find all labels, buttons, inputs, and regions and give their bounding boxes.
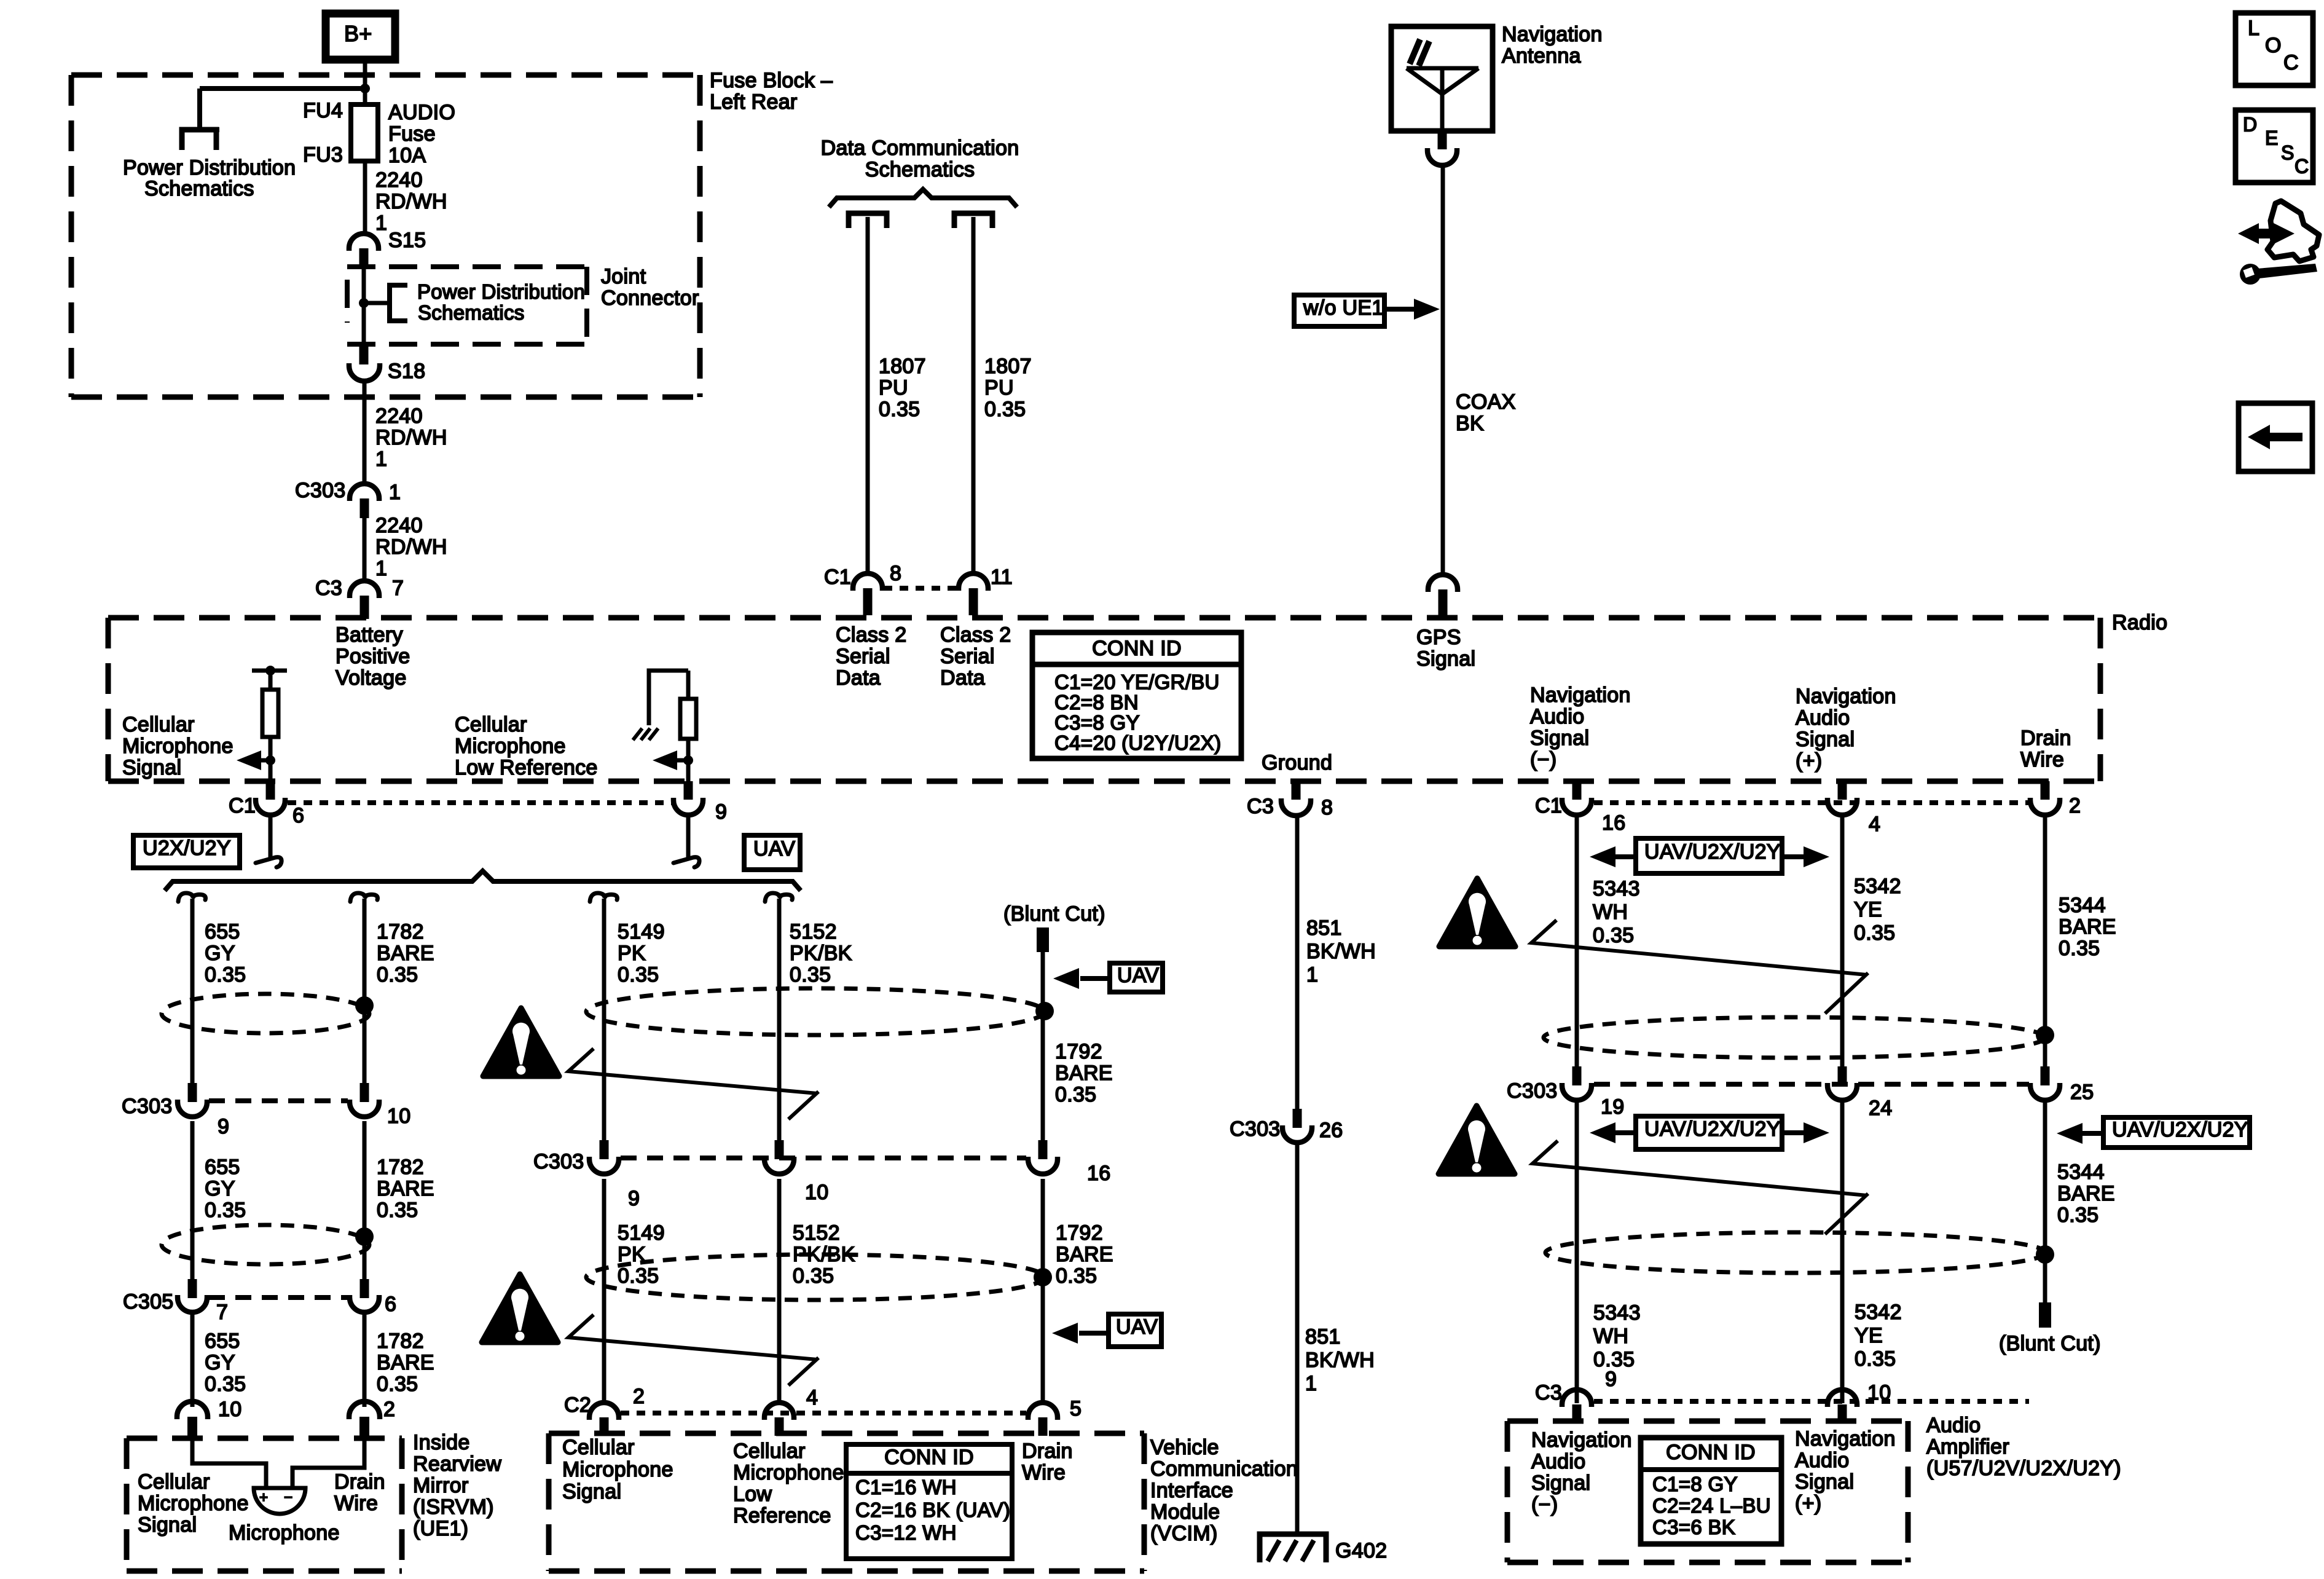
svg-text:851: 851 bbox=[1306, 916, 1342, 940]
twisted pair ellipse E3 bbox=[162, 1225, 369, 1264]
svg-text:C1: C1 bbox=[229, 794, 256, 817]
dashed line C303 row left bbox=[209, 1098, 348, 1103]
connector C303 pin 25 bbox=[2041, 1066, 2050, 1085]
svg-text:Battery: Battery bbox=[336, 623, 403, 647]
connector C2 pin 5 into VCIM bbox=[1028, 1403, 1058, 1420]
svg-text:Interface: Interface bbox=[1150, 1479, 1233, 1502]
svg-text:Signal: Signal bbox=[1530, 726, 1589, 750]
svg-text:G402: G402 bbox=[1335, 1539, 1387, 1562]
svg-text:C2: C2 bbox=[564, 1393, 591, 1417]
connector GPS into radio bbox=[1428, 575, 1458, 592]
svg-text:Audio: Audio bbox=[1796, 706, 1850, 730]
svg-text:RD/WH: RD/WH bbox=[375, 426, 447, 449]
wire 1782 BARE upper bbox=[363, 899, 367, 1083]
svg-text:1: 1 bbox=[375, 211, 387, 235]
wire low-ref bar to resistor bbox=[686, 671, 691, 699]
option box UAV/U2X/U2Y (mid) bbox=[1636, 1116, 1782, 1149]
svg-text:Drain: Drain bbox=[1022, 1439, 1073, 1463]
svg-text:CONN ID: CONN ID bbox=[884, 1446, 974, 1469]
svg-text:Cellular: Cellular bbox=[122, 713, 195, 736]
svg-text:Signal: Signal bbox=[562, 1480, 621, 1503]
svg-text:Joint: Joint bbox=[601, 265, 646, 288]
fork symbol circuit-continues (power distribution) bbox=[182, 130, 216, 150]
hook wire 5152 bbox=[765, 893, 793, 902]
wire 5342 YE lower bbox=[1840, 1102, 1845, 1403]
fine dotted line C1-6 to 9 bbox=[288, 800, 673, 805]
svg-text:0.35: 0.35 bbox=[1854, 921, 1895, 945]
svg-text:C1: C1 bbox=[1535, 794, 1562, 817]
connector pin 4 out of radio bbox=[1838, 781, 1847, 800]
svg-text:Cellular: Cellular bbox=[733, 1439, 806, 1463]
svg-text:Audio: Audio bbox=[1531, 1450, 1585, 1473]
svg-text:Navigation: Navigation bbox=[1502, 23, 1603, 46]
wire S18 to C303 bbox=[363, 380, 367, 485]
svg-text:RD/WH: RD/WH bbox=[375, 190, 447, 213]
svg-text:PK: PK bbox=[618, 942, 646, 965]
svg-text:BARE: BARE bbox=[377, 1177, 434, 1200]
connector C3 pin 7 into radio bbox=[350, 581, 379, 598]
svg-text:Power Distribution: Power Distribution bbox=[123, 156, 296, 179]
svg-text:UAV: UAV bbox=[1117, 964, 1159, 987]
lightning left lower bbox=[568, 1315, 819, 1385]
svg-text:19: 19 bbox=[1601, 1095, 1624, 1119]
svg-text:Navigation: Navigation bbox=[1796, 685, 1896, 708]
svg-text:0.35: 0.35 bbox=[377, 1372, 418, 1396]
svg-text:GY: GY bbox=[205, 942, 235, 965]
arrow cellular microphone signal bbox=[261, 758, 270, 763]
svg-text:COAX: COAX bbox=[1456, 390, 1516, 414]
svg-text:1807: 1807 bbox=[879, 355, 926, 378]
svg-text:2: 2 bbox=[383, 1398, 395, 1421]
arrow cellular microphone low reference bbox=[676, 758, 688, 763]
svg-text:C3: C3 bbox=[315, 577, 342, 600]
icon schematic-tool outline bbox=[2267, 201, 2319, 261]
svg-text:0.35: 0.35 bbox=[1855, 1347, 1896, 1371]
svg-text:Signal: Signal bbox=[122, 756, 181, 779]
svg-text:6: 6 bbox=[292, 804, 304, 827]
svg-text:Fuse Block –: Fuse Block – bbox=[710, 69, 833, 92]
svg-text:BARE: BARE bbox=[2059, 915, 2116, 939]
conn id table (amp) bbox=[1641, 1438, 1781, 1544]
connector C1 pin 11 into radio bbox=[959, 573, 988, 591]
wire 9 to brace bbox=[686, 815, 691, 858]
svg-text:1: 1 bbox=[375, 447, 387, 471]
wire C303-1 to C3-7 bbox=[363, 518, 367, 582]
svg-text:Inside: Inside bbox=[413, 1431, 470, 1454]
svg-text:4: 4 bbox=[806, 1386, 818, 1409]
splice S18 bbox=[359, 346, 369, 364]
lightning right upper bbox=[1531, 920, 1868, 1014]
svg-text:5342: 5342 bbox=[1854, 875, 1901, 898]
ground G402 symbol bbox=[1260, 1534, 1326, 1562]
ground hatch low-ref bbox=[633, 728, 658, 740]
connector C303 pin 26 bbox=[1293, 1109, 1302, 1128]
svg-text:CONN ID: CONN ID bbox=[1666, 1441, 1756, 1464]
svg-text:UAV/U2X/U2Y: UAV/U2X/U2Y bbox=[1644, 840, 1781, 864]
svg-text:Audio: Audio bbox=[1926, 1414, 1981, 1437]
warning triangle (left lower) bbox=[482, 1274, 558, 1342]
svg-text:C303: C303 bbox=[1230, 1117, 1280, 1141]
svg-text:0.35: 0.35 bbox=[377, 1199, 418, 1222]
svg-text:C3=8 GY: C3=8 GY bbox=[1054, 711, 1140, 734]
svg-text:7: 7 bbox=[216, 1301, 228, 1324]
svg-text:Signal: Signal bbox=[1795, 1470, 1854, 1494]
ISRVM dashed box bbox=[127, 1436, 402, 1441]
connector C2 pin 4 into VCIM bbox=[764, 1403, 794, 1420]
svg-text:Module: Module bbox=[1150, 1500, 1220, 1524]
svg-text:2240: 2240 bbox=[375, 404, 423, 428]
connector C3 pin 10 into amp bbox=[1827, 1390, 1857, 1407]
svg-text:C2=16 BK (UAV): C2=16 BK (UAV) bbox=[855, 1498, 1010, 1521]
svg-text:(+): (+) bbox=[1795, 1492, 1821, 1515]
svg-text:Audio: Audio bbox=[1530, 705, 1584, 728]
VCIM dashed box bbox=[549, 1431, 1144, 1436]
icon wrench bbox=[2240, 264, 2261, 285]
svg-text:UAV/U2X/U2Y: UAV/U2X/U2Y bbox=[2112, 1118, 2248, 1141]
svg-text:WH: WH bbox=[1593, 900, 1628, 924]
svg-text:0.35: 0.35 bbox=[793, 1264, 834, 1288]
svg-text:1: 1 bbox=[1305, 1372, 1317, 1395]
svg-text:2240: 2240 bbox=[375, 514, 423, 537]
svg-text:GY: GY bbox=[205, 1351, 235, 1374]
svg-text:5343: 5343 bbox=[1593, 1301, 1641, 1325]
svg-text:16: 16 bbox=[1087, 1162, 1110, 1185]
svg-text:7: 7 bbox=[392, 577, 404, 600]
wire branch to bracket bbox=[364, 301, 388, 305]
option box w/o UE1 bbox=[1294, 295, 1384, 326]
node E5 on 5344 bbox=[2036, 1026, 2054, 1044]
svg-text:10: 10 bbox=[218, 1398, 241, 1421]
svg-text:CONN ID: CONN ID bbox=[1092, 637, 1182, 660]
svg-text:1792: 1792 bbox=[1056, 1221, 1103, 1245]
svg-text:C1=8 GY: C1=8 GY bbox=[1652, 1473, 1738, 1495]
svg-text:1: 1 bbox=[375, 557, 387, 580]
lightning left upper bbox=[568, 1049, 819, 1119]
wire B+ to fuse bbox=[363, 60, 367, 104]
svg-text:1807: 1807 bbox=[984, 355, 1032, 378]
svg-text:Data: Data bbox=[836, 666, 881, 690]
svg-text:C303: C303 bbox=[1507, 1079, 1557, 1103]
svg-text:C2=24 L–BU: C2=24 L–BU bbox=[1652, 1494, 1771, 1517]
svg-text:C303: C303 bbox=[533, 1150, 584, 1173]
svg-text:1: 1 bbox=[1306, 963, 1318, 986]
svg-text:0.35: 0.35 bbox=[2057, 1203, 2098, 1227]
connector C3 pin 8 out of radio bbox=[1292, 781, 1301, 800]
radio dashed box bbox=[108, 615, 2100, 621]
twisted pair ellipse E2 bbox=[586, 988, 1045, 1035]
svg-text:C303: C303 bbox=[122, 1095, 172, 1118]
fine dotted line VCIM row bbox=[621, 1411, 1026, 1416]
svg-text:(Blunt Cut): (Blunt Cut) bbox=[1003, 902, 1105, 926]
svg-text:1782: 1782 bbox=[377, 1156, 424, 1179]
svg-text:Signal: Signal bbox=[1416, 647, 1475, 671]
lightning right lower bbox=[1533, 1141, 1868, 1234]
svg-text:Ground: Ground bbox=[1262, 751, 1332, 774]
wire 5152 PK/BK upper bbox=[777, 899, 782, 1140]
svg-text:AUDIO: AUDIO bbox=[388, 101, 455, 124]
option box UAV (blunt) bbox=[1110, 963, 1163, 992]
warning triangle (right lower) bbox=[1439, 1106, 1515, 1174]
wire 5342 YE upper bbox=[1840, 815, 1845, 1066]
connector C2 pin 2 into VCIM bbox=[589, 1403, 619, 1420]
svg-text:5: 5 bbox=[1070, 1397, 1082, 1420]
svg-text:11: 11 bbox=[991, 565, 1013, 589]
svg-text:Voltage: Voltage bbox=[336, 666, 407, 690]
svg-text:C1=20 YE/GR/BU: C1=20 YE/GR/BU bbox=[1054, 671, 1220, 693]
svg-text:0.35: 0.35 bbox=[1593, 924, 1634, 947]
svg-text:2: 2 bbox=[633, 1385, 645, 1408]
svg-text:Cellular: Cellular bbox=[138, 1470, 210, 1494]
svg-text:Schematics: Schematics bbox=[418, 301, 525, 324]
svg-text:Wire: Wire bbox=[1022, 1461, 1066, 1484]
fine dotted line C1-16 to 2 bbox=[1594, 800, 2030, 805]
svg-text:(U57/U2V/U2X/U2Y): (U57/U2V/U2X/U2Y) bbox=[1926, 1457, 2121, 1480]
harness brace bbox=[165, 871, 801, 891]
svg-text:8: 8 bbox=[890, 562, 901, 585]
fork symbol class2 serial data right bbox=[954, 213, 992, 228]
svg-text:(Blunt Cut): (Blunt Cut) bbox=[1999, 1332, 2101, 1355]
node junction at B+ feed bbox=[360, 84, 370, 93]
connector C303 pin 10 (5152) bbox=[775, 1140, 784, 1159]
svg-text:Positive: Positive bbox=[336, 645, 410, 668]
svg-text:E: E bbox=[2265, 127, 2279, 149]
svg-text:GY: GY bbox=[205, 1177, 235, 1200]
svg-text:BARE: BARE bbox=[1056, 1243, 1113, 1266]
svg-text:C3: C3 bbox=[1535, 1381, 1562, 1404]
svg-text:0.35: 0.35 bbox=[2059, 937, 2100, 960]
fuse block dashed box (Fuse Block - Left Rear) bbox=[71, 73, 696, 78]
twisted pair ellipse E6 bbox=[1545, 1232, 2046, 1273]
icon box DESC bbox=[2236, 110, 2313, 183]
svg-text:9: 9 bbox=[218, 1115, 229, 1138]
svg-text:PU: PU bbox=[879, 376, 908, 400]
wire fuse to S15 bbox=[363, 161, 367, 236]
wire 5344 BARE upper bbox=[2043, 815, 2047, 1066]
wire C303-26 to G402 bbox=[1295, 1144, 1300, 1534]
arrow UAV to drain 5 bbox=[1079, 1331, 1109, 1336]
svg-text:16: 16 bbox=[1602, 811, 1625, 835]
wire 5343 WH upper bbox=[1575, 815, 1579, 1066]
antenna output pin and cup bbox=[1438, 130, 1447, 149]
svg-text:UAV: UAV bbox=[753, 837, 795, 860]
svg-text:PK/BK: PK/BK bbox=[790, 942, 852, 965]
node mic low-ref out bbox=[683, 755, 693, 765]
fuse FU4/FU3 AUDIO Fuse 10A bbox=[351, 104, 378, 161]
node junction inside joint connector bbox=[359, 298, 369, 308]
svg-text:C1: C1 bbox=[824, 565, 851, 589]
antenna symbol bbox=[1407, 66, 1478, 71]
svg-text:5343: 5343 bbox=[1593, 877, 1640, 900]
svg-text:0.35: 0.35 bbox=[205, 963, 246, 986]
connector C303 pin 19 bbox=[1572, 1066, 1582, 1085]
svg-text:10: 10 bbox=[387, 1105, 410, 1128]
svg-text:+: + bbox=[259, 1489, 268, 1506]
arrow UAV/U2X/U2Y to 5344 bbox=[2080, 1131, 2103, 1136]
wire 1782 BARE to ISRVM bbox=[363, 1313, 367, 1407]
svg-text:YE: YE bbox=[1854, 898, 1882, 921]
svg-text:O: O bbox=[2265, 34, 2282, 57]
svg-text:6: 6 bbox=[385, 1293, 396, 1316]
svg-text:1782: 1782 bbox=[377, 1329, 424, 1353]
svg-text:Data: Data bbox=[940, 666, 985, 690]
wire 5152 PK/BK lower bbox=[777, 1179, 782, 1403]
svg-text:2: 2 bbox=[2069, 794, 2081, 817]
wire resistor to low-ref node bbox=[686, 739, 691, 781]
svg-text:Microphone: Microphone bbox=[733, 1461, 844, 1484]
connector pin 9 out of radio bbox=[684, 781, 693, 800]
wire mic signal inside ISRVM bbox=[192, 1440, 266, 1488]
svg-text:C3: C3 bbox=[1247, 795, 1274, 818]
wire 1792 BARE upper bbox=[1041, 951, 1045, 1140]
svg-text:0.35: 0.35 bbox=[790, 963, 831, 986]
svg-text:25: 25 bbox=[2070, 1081, 2094, 1104]
brace data communication bbox=[829, 189, 1017, 207]
svg-text:RD/WH: RD/WH bbox=[375, 535, 447, 559]
svg-text:Microphone: Microphone bbox=[562, 1458, 673, 1481]
svg-text:24: 24 bbox=[1869, 1097, 1892, 1120]
svg-text:Low: Low bbox=[733, 1483, 772, 1506]
svg-text:w/o UE1: w/o UE1 bbox=[1303, 296, 1384, 320]
wire branch to power distribution bbox=[200, 86, 365, 91]
wire 5343 WH lower bbox=[1575, 1102, 1579, 1403]
svg-text:C: C bbox=[2283, 51, 2299, 74]
svg-text:2240: 2240 bbox=[375, 168, 423, 192]
navigation antenna box bbox=[1391, 26, 1493, 131]
wire COAX BK bbox=[1441, 165, 1445, 577]
svg-text:Serial: Serial bbox=[836, 645, 890, 668]
bracket symbol power distribution ref bbox=[390, 285, 407, 321]
arrow UAV to 1792 bbox=[1080, 976, 1110, 981]
svg-text:(VCIM): (VCIM) bbox=[1150, 1522, 1217, 1545]
fine dotted line amp row bbox=[1594, 1399, 2029, 1404]
connector C303 pin 10 (1782) bbox=[360, 1083, 369, 1102]
svg-text:C1=16 WH: C1=16 WH bbox=[855, 1476, 957, 1498]
svg-text:0.35: 0.35 bbox=[618, 963, 659, 986]
svg-text:WH: WH bbox=[1593, 1325, 1628, 1348]
svg-text:0.35: 0.35 bbox=[205, 1372, 246, 1396]
wire 1792 BARE lower bbox=[1041, 1179, 1045, 1403]
svg-text:Wire: Wire bbox=[2020, 748, 2064, 771]
connector C1 pin 16 out of radio bbox=[1572, 781, 1582, 800]
blunt cut stub (left) bbox=[1037, 927, 1049, 952]
svg-text:C: C bbox=[2295, 155, 2309, 177]
svg-text:U2X/U2Y: U2X/U2Y bbox=[143, 837, 231, 860]
connector C303 pin 9 (5149) bbox=[600, 1140, 609, 1159]
wire ground C3-8 to C303-26 bbox=[1295, 815, 1300, 1109]
svg-text:Signal: Signal bbox=[1531, 1471, 1590, 1495]
conn id table (VCIM) bbox=[846, 1444, 1012, 1559]
svg-text:(+): (+) bbox=[1796, 749, 1822, 773]
fork symbol class2 serial data left bbox=[849, 213, 887, 228]
wire 1782 BARE lower bbox=[363, 1121, 367, 1279]
microphone symbol bbox=[254, 1488, 305, 1514]
svg-text:5152: 5152 bbox=[790, 920, 837, 943]
svg-text:BK: BK bbox=[1456, 412, 1484, 435]
svg-text:8: 8 bbox=[1321, 796, 1333, 819]
svg-text:C3=6 BK: C3=6 BK bbox=[1652, 1516, 1735, 1538]
svg-text:BARE: BARE bbox=[2057, 1182, 2115, 1205]
icon box LOC bbox=[2236, 13, 2313, 85]
splice S15 bbox=[349, 234, 379, 251]
internal rail cellular mic signal bbox=[252, 669, 287, 673]
resistor mic signal bias bbox=[262, 690, 278, 737]
dashed line C305 row bbox=[209, 1295, 348, 1300]
svg-text:C4=20 (U2Y/U2X): C4=20 (U2Y/U2X) bbox=[1054, 731, 1221, 754]
svg-text:FU3: FU3 bbox=[303, 143, 343, 167]
dashed line C303 row middle bbox=[621, 1156, 1026, 1160]
svg-text:26: 26 bbox=[1319, 1119, 1343, 1142]
svg-text:10A: 10A bbox=[388, 144, 426, 167]
antenna signal flashes bbox=[1410, 39, 1429, 66]
wire class 2 serial data left bbox=[866, 217, 870, 575]
svg-text:Mirror: Mirror bbox=[413, 1474, 469, 1497]
svg-text:9: 9 bbox=[715, 800, 727, 824]
svg-text:Microphone: Microphone bbox=[122, 734, 234, 758]
svg-text:PU: PU bbox=[984, 376, 1014, 400]
svg-text:Radio: Radio bbox=[2112, 611, 2167, 634]
svg-text:0.35: 0.35 bbox=[205, 1199, 246, 1222]
svg-text:5149: 5149 bbox=[618, 1221, 665, 1245]
svg-text:Cellular: Cellular bbox=[562, 1436, 635, 1459]
option box U2X/U2Y bbox=[133, 835, 240, 868]
arrow w/o UE1 to coax bbox=[1384, 307, 1416, 312]
twisted pair ellipse E4 bbox=[586, 1254, 1045, 1300]
svg-text:YE: YE bbox=[1855, 1324, 1883, 1347]
svg-text:Drain: Drain bbox=[334, 1470, 385, 1494]
node E6 on 5344 bbox=[2036, 1245, 2054, 1264]
svg-text:Class 2: Class 2 bbox=[836, 623, 906, 647]
arrow left (mid option) bbox=[1613, 1130, 1636, 1135]
resistor mic low reference bias bbox=[680, 699, 696, 739]
svg-text:GPS: GPS bbox=[1416, 626, 1461, 649]
svg-text:655: 655 bbox=[205, 1156, 240, 1179]
hook wire 5149 bbox=[590, 893, 618, 902]
svg-text:Amplifier: Amplifier bbox=[1926, 1435, 2009, 1459]
svg-text:Signal: Signal bbox=[138, 1513, 197, 1537]
wire 5344 BARE lower bbox=[2043, 1102, 2047, 1302]
svg-text:Communication: Communication bbox=[1150, 1457, 1298, 1481]
svg-text:9: 9 bbox=[1605, 1368, 1617, 1391]
wire 655 GY lower bbox=[190, 1121, 195, 1279]
svg-text:L: L bbox=[2248, 17, 2259, 40]
wire C1-6 to brace bbox=[269, 815, 273, 858]
svg-text:(−): (−) bbox=[1531, 1493, 1558, 1516]
svg-text:0.35: 0.35 bbox=[377, 963, 418, 986]
svg-text:Data Communication: Data Communication bbox=[821, 136, 1019, 160]
connector C303 pin 24 bbox=[1838, 1066, 1847, 1085]
svg-text:−: − bbox=[284, 1489, 292, 1506]
node E3 on 1782 bbox=[355, 1227, 374, 1246]
svg-text:Navigation: Navigation bbox=[1795, 1427, 1896, 1451]
arrow right (mid option) bbox=[1782, 1130, 1805, 1135]
svg-text:Microphone: Microphone bbox=[229, 1521, 340, 1545]
svg-text:Class 2: Class 2 bbox=[940, 623, 1011, 647]
svg-text:B+: B+ bbox=[344, 21, 372, 46]
svg-text:9: 9 bbox=[628, 1187, 640, 1210]
svg-text:Signal: Signal bbox=[1796, 728, 1855, 751]
svg-text:(−): (−) bbox=[1530, 748, 1557, 771]
conn id table (radio) bbox=[1032, 632, 1241, 758]
svg-text:851: 851 bbox=[1305, 1325, 1341, 1349]
svg-text:BARE: BARE bbox=[1055, 1061, 1113, 1085]
twisted pair ellipse E1 bbox=[162, 994, 369, 1033]
svg-text:5152: 5152 bbox=[793, 1221, 840, 1245]
connector pin 2 out of radio bbox=[2041, 781, 2050, 800]
icon schematic-tool double arrow bbox=[2238, 223, 2295, 244]
svg-text:Wire: Wire bbox=[334, 1492, 378, 1515]
wire class 2 serial data right bbox=[972, 217, 976, 575]
svg-text:FU4: FU4 bbox=[303, 99, 343, 122]
